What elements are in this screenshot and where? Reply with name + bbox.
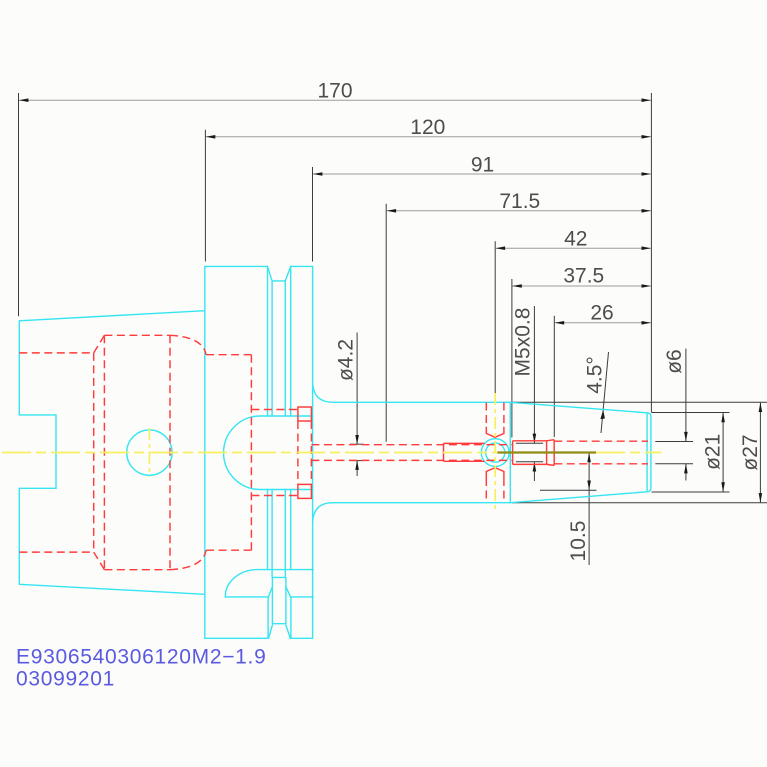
svg-text:4.5°: 4.5° xyxy=(584,356,607,394)
leader phi4.2 xyxy=(356,333,358,445)
neck bottom line xyxy=(333,502,510,504)
arrows 71.5 xyxy=(387,209,397,213)
arrows M5 xyxy=(533,434,537,444)
svg-text:91: 91 xyxy=(471,153,494,176)
extension line left 91 xyxy=(312,167,314,262)
cone junction vertical xyxy=(509,402,511,502)
arrow 4.5deg xyxy=(600,410,605,419)
thread chamfer xyxy=(547,440,555,466)
cavity branch lines xyxy=(251,410,298,496)
arrows phi4.2 xyxy=(355,435,359,445)
svg-text:42: 42 xyxy=(564,228,587,251)
tube end face xyxy=(444,443,485,461)
nose cone top xyxy=(510,402,651,416)
leader 4.5deg xyxy=(601,352,609,433)
phi6 bore lines xyxy=(554,441,648,464)
svg-text:E9306540306120M2−1.9: E9306540306120M2−1.9 xyxy=(16,646,266,669)
flange right edge xyxy=(312,266,314,638)
dimension texts horizontal xyxy=(317,79,613,324)
svg-text:ø21: ø21 xyxy=(702,434,725,470)
arrows 10.5 xyxy=(587,453,591,463)
dim line 91 xyxy=(313,173,651,175)
extension line left 42 xyxy=(494,241,496,397)
extension line left 120 xyxy=(204,130,206,262)
ext line 10.5 bottom xyxy=(540,489,597,491)
flange bottom scoop arc xyxy=(225,570,257,597)
arrowheads for horizontal dims xyxy=(19,98,651,324)
extension line left 170 xyxy=(18,93,20,316)
arrows phi27 xyxy=(759,403,763,413)
taper cavity small-end lines xyxy=(19,353,93,552)
cross hole circles xyxy=(481,439,509,467)
arrows 42 xyxy=(496,246,506,250)
arrows phi21 xyxy=(721,413,725,423)
coolant hole circle xyxy=(127,430,172,475)
ext line phi27 bottom xyxy=(512,502,767,504)
drive slot xyxy=(272,577,286,623)
ext tick phi6 bottom xyxy=(655,463,693,465)
cross hole vertical centerline xyxy=(494,393,496,512)
coolant tube capsule xyxy=(224,416,312,490)
leader M5x0.8 xyxy=(533,306,535,443)
flange V-groove top xyxy=(268,266,291,281)
extension line right common xyxy=(650,93,652,412)
phi4.2 bore lines xyxy=(311,445,512,461)
coolant tube dashed verticals xyxy=(298,421,312,484)
extension line left 71.5 xyxy=(385,204,387,442)
rotated dim texts xyxy=(335,308,763,562)
dim line phi6 xyxy=(685,349,687,442)
ext tick phi6 top xyxy=(655,441,693,443)
dim line 120 xyxy=(206,136,651,138)
arrows 120 xyxy=(206,135,216,139)
ext line phi21 bottom xyxy=(652,491,730,493)
svg-text:03099201: 03099201 xyxy=(16,668,115,691)
taper outline xyxy=(19,311,205,595)
arrows phi6 xyxy=(684,432,688,442)
main horizontal centerline xyxy=(2,452,498,454)
cavity top/bottom lines xyxy=(104,335,170,569)
neck top line xyxy=(333,401,510,403)
svg-text:26: 26 xyxy=(590,302,613,325)
cavity chamfers xyxy=(94,335,105,569)
svg-text:170: 170 xyxy=(317,79,352,102)
dim line 10.5 xyxy=(588,453,590,566)
V-groove verticals lower xyxy=(268,490,291,578)
thread section solid xyxy=(513,441,547,465)
arrows 37.5 xyxy=(512,284,522,288)
arrows 26 xyxy=(555,321,565,325)
coolant tube solid boxes xyxy=(298,407,312,421)
flange top edge xyxy=(205,265,313,267)
nose tip outer xyxy=(650,417,652,488)
nose tip face line xyxy=(646,414,648,491)
svg-text:M5x0.8: M5x0.8 xyxy=(512,308,535,377)
thread tick bottom xyxy=(516,461,543,463)
dim line 42 xyxy=(496,247,651,249)
extension line left 26 xyxy=(553,316,555,437)
drive slot chamfers xyxy=(268,587,290,597)
phi4.2 tick bottom xyxy=(350,460,364,462)
cavity verticals xyxy=(94,335,252,569)
ext line phi27 top xyxy=(512,401,767,403)
flange bottom edge xyxy=(205,637,313,639)
neck fillet top xyxy=(313,383,333,402)
circle vertical centerline xyxy=(148,428,150,477)
cross hole bottom xyxy=(486,478,504,503)
drive slot flare xyxy=(268,597,291,638)
dim line 37.5 xyxy=(512,285,650,287)
phi4.2 tick top xyxy=(350,443,364,445)
flange left edge xyxy=(204,266,206,638)
svg-text:ø4.2: ø4.2 xyxy=(335,339,358,381)
svg-text:37.5: 37.5 xyxy=(563,265,604,288)
V-groove verticals upper xyxy=(268,266,291,416)
arrows 91 xyxy=(313,172,323,176)
cavity flange lines xyxy=(206,355,251,551)
dim line 170 xyxy=(19,99,651,101)
dim line 71.5 xyxy=(387,210,651,212)
svg-text:120: 120 xyxy=(410,116,445,139)
thread tick top xyxy=(516,442,543,444)
svg-text:ø6: ø6 xyxy=(663,349,686,374)
svg-text:ø27: ø27 xyxy=(739,434,762,470)
dim line phi27 xyxy=(759,402,761,503)
cross hole top xyxy=(486,403,504,427)
dim line phi21 xyxy=(722,413,724,493)
cavity corner arcs xyxy=(170,335,206,569)
olive bore centerline overlap xyxy=(498,451,597,453)
svg-text:71.5: 71.5 xyxy=(499,190,540,213)
flange bottom ledge lines xyxy=(225,570,313,597)
dim line 26 xyxy=(555,322,651,324)
nose cone bottom xyxy=(510,488,651,503)
arrows 170 xyxy=(19,98,29,102)
neck fillet bottom xyxy=(313,503,333,522)
svg-text:10.5: 10.5 xyxy=(567,521,590,562)
ext line phi21 top xyxy=(652,412,730,414)
extension line left 37.5 xyxy=(511,279,513,438)
